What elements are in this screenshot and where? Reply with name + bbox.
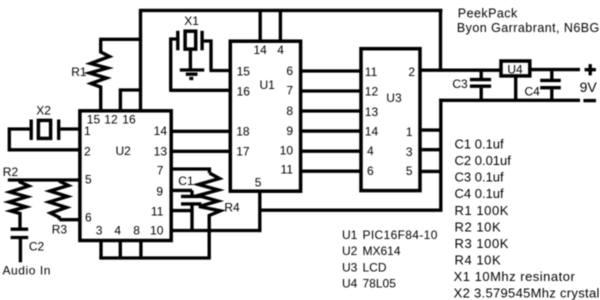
svg-text:11: 11: [151, 204, 164, 218]
svg-text:12: 12: [104, 112, 118, 126]
U1 top pin wires 14 and 4: [260, 10, 280, 41]
label R4: [224, 200, 240, 214]
svg-text:6: 6: [367, 164, 374, 178]
svg-text:X2 3.579545Mhz crystal: X2 3.579545Mhz crystal: [454, 286, 600, 300]
label X1: [184, 14, 199, 28]
wire top rail down to +5V rail: [439, 10, 442, 70]
crystal X2: [31, 120, 59, 141]
svg-text:C1: C1: [178, 174, 194, 188]
svg-text:U4: U4: [342, 277, 358, 291]
svg-text:R4 10K: R4 10K: [455, 252, 502, 267]
wire U1 pin 5 ground stub: [258, 192, 261, 232]
svg-text:R3 100K: R3 100K: [455, 236, 509, 251]
svg-text:16: 16: [122, 112, 136, 126]
svg-text:4: 4: [277, 43, 284, 57]
wire U4 ground lead: [514, 76, 517, 100]
svg-text:2: 2: [408, 65, 415, 79]
svg-text:4: 4: [114, 223, 121, 237]
parts list U column: [342, 228, 438, 290]
svg-text:R4: R4: [224, 200, 240, 214]
title PeekPack: [458, 6, 518, 20]
label 9V: [580, 79, 598, 95]
label C2: [29, 239, 45, 253]
svg-text:C3: C3: [452, 77, 468, 91]
label U4: [507, 62, 523, 76]
ground rail: [439, 99, 580, 102]
label C1: [178, 174, 194, 188]
U1 pin labels right: [280, 64, 294, 177]
svg-text:U2: U2: [342, 244, 358, 258]
U2 bottom pins 3 4 8 stubs: [101, 242, 141, 258]
IC U2 box: [80, 111, 171, 241]
U1 pin labels top: [254, 43, 285, 57]
svg-text:10: 10: [150, 223, 164, 237]
U2 pin labels top: [87, 112, 136, 126]
U2 pin labels right: [151, 124, 167, 218]
svg-text:14: 14: [365, 125, 379, 139]
svg-text:16: 16: [237, 85, 251, 99]
svg-text:R2: R2: [3, 165, 19, 179]
IC U3 box: [361, 49, 420, 191]
svg-text:2: 2: [84, 144, 91, 158]
label Audio In: [3, 263, 51, 277]
svg-text:6: 6: [286, 64, 293, 78]
ground under X1: [180, 70, 205, 79]
svg-text:11: 11: [281, 163, 294, 177]
svg-text:R1 100K: R1 100K: [455, 203, 509, 218]
svg-text:3: 3: [96, 223, 103, 237]
svg-text:14: 14: [254, 43, 268, 57]
svg-text:12: 12: [365, 84, 379, 98]
resistor R2: [9, 180, 29, 229]
wire U2 pin 13 to U1 pin 17: [171, 150, 232, 153]
svg-text:8: 8: [286, 104, 293, 118]
wire X1 left electrode to U1 pin 16: [169, 39, 232, 90]
svg-text:13: 13: [365, 105, 379, 119]
svg-text:1: 1: [406, 125, 413, 139]
wire U2 pin 9 to C1: [171, 189, 192, 192]
wire U2 pin 11 to C1 lead: [171, 209, 192, 212]
svg-text:U1: U1: [260, 78, 276, 92]
wire X1 right electrode to U1 pin 15: [202, 41, 232, 71]
svg-text:LCD: LCD: [363, 261, 387, 275]
label R3: [52, 222, 68, 236]
svg-text:14: 14: [154, 124, 168, 138]
svg-text:6: 6: [85, 211, 92, 225]
U3 pin labels left: [365, 65, 379, 178]
svg-text:10: 10: [280, 144, 294, 158]
svg-text:17: 17: [236, 145, 250, 159]
capacitor C2: [11, 229, 29, 262]
svg-text:15: 15: [237, 65, 251, 79]
IC U1 box: [230, 41, 300, 191]
label R2: [3, 165, 19, 179]
capacitor C3: [470, 70, 491, 100]
wire U2 pin 10 ground node: [171, 229, 262, 232]
wire U4 output to battery plus: [530, 68, 580, 71]
svg-text:MX614: MX614: [363, 244, 401, 258]
svg-text:U3: U3: [386, 91, 402, 105]
wire ground return to rail: [260, 99, 443, 212]
svg-text:1: 1: [84, 124, 91, 138]
label C3: [452, 77, 468, 91]
wire U2 pin 7 to R4: [171, 169, 210, 173]
capacitor C4: [540, 70, 561, 101]
svg-text:4: 4: [367, 144, 374, 158]
svg-text:X2: X2: [36, 103, 51, 117]
wire U3 pin 2 +5V rail to U4: [420, 69, 501, 72]
svg-text:X1 10Mhz resinator: X1 10Mhz resinator: [454, 269, 576, 284]
svg-text:9V: 9V: [580, 79, 598, 95]
U1 pin label bottom 5: [255, 175, 262, 189]
label C4: [525, 84, 541, 98]
svg-text:C2 0.01uf: C2 0.01uf: [455, 153, 512, 168]
wire U2 pin 14 to U1 pin 18: [171, 130, 232, 133]
parts list right column: [454, 137, 600, 300]
svg-text:3: 3: [406, 145, 413, 159]
svg-text:C4: C4: [525, 84, 541, 98]
svg-text:X1: X1: [184, 14, 199, 28]
title author: [457, 21, 600, 35]
svg-text:C1 0.1uf: C1 0.1uf: [455, 137, 505, 152]
svg-text:U3: U3: [342, 261, 358, 275]
wire X2 left to U2 pin 2: [9, 129, 80, 150]
regulator U4: [501, 61, 530, 76]
U2 pin labels bottom: [96, 223, 164, 237]
svg-text:R1: R1: [71, 65, 87, 79]
label U3: [386, 91, 402, 105]
label X2: [36, 103, 51, 117]
svg-text:7: 7: [157, 164, 164, 178]
label U1: [260, 78, 276, 92]
svg-text:13: 13: [154, 145, 168, 159]
resonator X1: [178, 31, 202, 70]
svg-text:Audio In: Audio In: [3, 263, 51, 277]
svg-text:78L05: 78L05: [363, 277, 397, 291]
wire +5V top rail: [139, 9, 443, 12]
svg-text:Byon Garrabrant, N6BG: Byon Garrabrant, N6BG: [457, 21, 600, 35]
U3 right pin stubs 1 3 5 to ground: [422, 130, 443, 171]
ground bus under U2: [99, 256, 211, 259]
wire U2 pin 12 jog: [120, 90, 140, 111]
svg-text:C2: C2: [29, 239, 45, 253]
svg-text:U4: U4: [507, 62, 523, 76]
svg-text:18: 18: [236, 125, 250, 139]
svg-text:C4 0.1uf: C4 0.1uf: [455, 186, 505, 201]
resistor R3: [49, 181, 80, 220]
U3 pin labels right: [406, 65, 416, 178]
svg-text:5: 5: [255, 175, 262, 189]
svg-text:U1: U1: [342, 228, 358, 242]
capacitor C1: [181, 190, 201, 231]
label R1: [71, 65, 87, 79]
battery plus terminal: [585, 64, 596, 75]
svg-text:9: 9: [156, 185, 163, 199]
svg-text:7: 7: [286, 84, 293, 98]
resistor R1: [90, 39, 110, 111]
wire R1 top branch: [99, 38, 142, 41]
svg-text:PeekPack: PeekPack: [458, 6, 518, 20]
svg-text:11: 11: [365, 65, 378, 79]
svg-text:R3: R3: [52, 222, 68, 236]
svg-text:8: 8: [133, 223, 140, 237]
svg-text:5: 5: [85, 172, 92, 186]
wires U1 to U3 data bus: [302, 71, 362, 171]
svg-text:5: 5: [406, 164, 413, 178]
label U2: [116, 144, 132, 158]
resistor R4: [198, 173, 221, 258]
wire audio node to U2 pin 5: [8, 178, 80, 181]
svg-text:PIC16F84-10: PIC16F84-10: [363, 228, 438, 242]
battery minus terminal: [583, 99, 596, 102]
wire top rail down to U2 pin 16: [139, 10, 142, 111]
wire X2 right to U2 pin 1: [60, 127, 80, 130]
svg-text:R2 10K: R2 10K: [455, 219, 502, 234]
U2 pin labels left: [84, 124, 92, 225]
svg-text:C3 0.1uf: C3 0.1uf: [455, 170, 505, 185]
svg-text:9: 9: [286, 124, 293, 138]
svg-text:U2: U2: [116, 144, 132, 158]
U1 pin labels left: [236, 65, 250, 159]
